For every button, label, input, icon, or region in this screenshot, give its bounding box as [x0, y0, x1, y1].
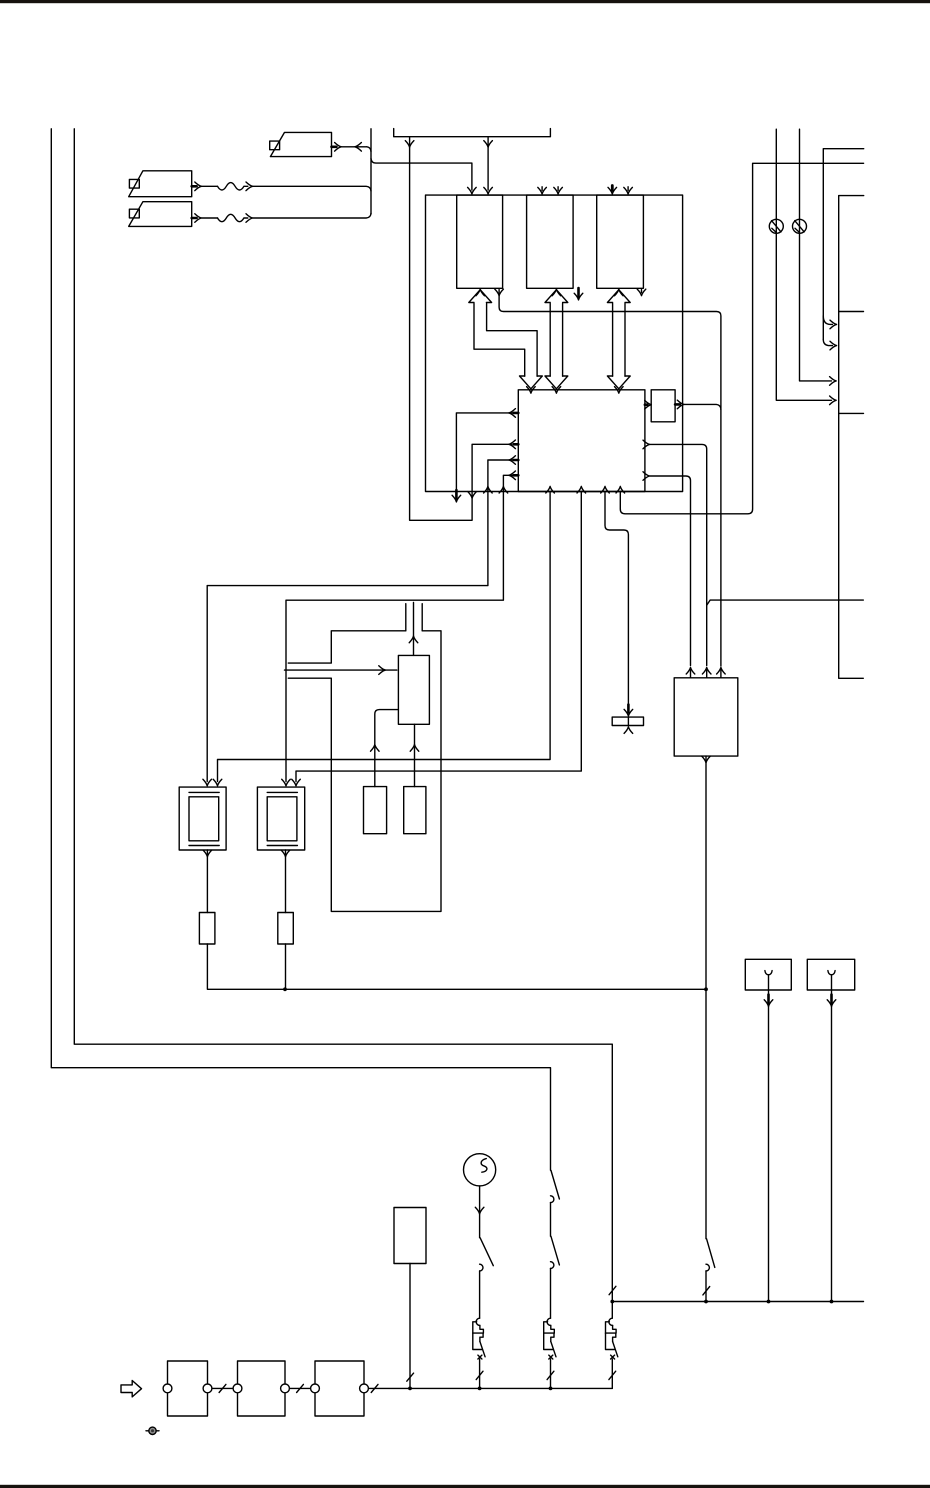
wire [244, 185, 248, 187]
wire: bracket to relay 1 pin 2 [487, 138, 489, 191]
ground bolt [149, 1427, 156, 1434]
arrow right [195, 214, 202, 223]
solenoid S1 [364, 787, 387, 834]
ECU right pin to sub box [645, 403, 648, 406]
lamp L2 [793, 219, 807, 233]
bold arrow end [452, 490, 461, 502]
relay block outer box [426, 195, 683, 491]
rail B stub 1 [839, 311, 864, 313]
switch SW1 contact [480, 1264, 483, 1271]
wire: ECU pin1 down [456, 413, 518, 490]
lamp L1 [769, 219, 783, 233]
wire W3: ECU pin3 to relay A [207, 460, 518, 782]
relay U3 aux pin arrow [641, 290, 643, 293]
ECU bottom pin to fuse connector [601, 486, 610, 493]
wire: left frame feed line 1 to switch column 2 [51, 129, 550, 1171]
arrow down into relay 1 [468, 187, 477, 194]
circuit breaker CB2 [544, 1318, 556, 1388]
switch SW2b blade [551, 1236, 559, 1265]
ECU left pin 2 [514, 443, 519, 446]
sensor box [394, 1208, 426, 1264]
connector CN1 [745, 959, 791, 990]
control unit box with notch [288, 631, 441, 912]
ECU left pin 1 [514, 412, 519, 415]
wire [244, 217, 248, 219]
horn H2 tab [129, 179, 139, 188]
sensor wire [409, 1264, 411, 1389]
rail A branch hook 1 [823, 316, 832, 324]
slash mark [371, 1384, 378, 1392]
lamp line 1 [776, 129, 831, 400]
arrow down from bracket [405, 141, 414, 148]
servo box [398, 655, 429, 724]
circuit breaker CB3 [606, 1318, 618, 1388]
solenoid S2 [404, 787, 426, 834]
wire to page edge at 600 [707, 600, 864, 605]
horn bus vertical wire [370, 129, 372, 214]
relay K3 [315, 1361, 364, 1416]
horn symbol H3 [129, 202, 192, 227]
ECU bottom pin to page edge [616, 486, 625, 493]
wire to merge [253, 186, 371, 191]
control unit chimney [405, 604, 407, 631]
wire to merge [253, 213, 371, 218]
wire K1-K2 [212, 1387, 233, 1389]
ECU right pin 2 [643, 440, 650, 449]
terminal circles [163, 1384, 172, 1393]
page header bar [0, 0, 930, 3]
right rail B [839, 196, 864, 679]
relay U3 pin stub 1 (bold) [611, 186, 614, 191]
sub box output [675, 403, 680, 406]
relay B inner core [267, 797, 297, 841]
slash mark [609, 1286, 616, 1294]
harness bus arrow U1 to ECU [469, 290, 492, 303]
relay K1 [168, 1361, 208, 1416]
slash mark [703, 1287, 710, 1295]
bus wire into servo [285, 669, 397, 671]
relay K2 [238, 1361, 286, 1416]
collector wire [612, 1301, 863, 1303]
ECU main box [518, 390, 645, 492]
arrow right [195, 182, 202, 191]
relay B inner bottom line [267, 845, 297, 847]
relay B outer [257, 787, 304, 850]
slash mark [219, 1384, 226, 1392]
ground bus wire [285, 988, 706, 990]
horn H3 tab [129, 209, 139, 218]
connector CN2 [807, 959, 854, 990]
motor lead [479, 1186, 481, 1238]
arrow left (connector pair) [355, 143, 362, 152]
arrow up into actuator [717, 667, 726, 674]
switch SW4 contact [706, 1264, 709, 1271]
flow block arrow [121, 1381, 142, 1397]
servo bottom pin [414, 724, 416, 786]
relay B inner top line [267, 791, 297, 793]
horn H1 tab [270, 141, 280, 150]
relay U2 [527, 195, 574, 288]
horn symbol H1 [270, 132, 331, 156]
resistor R2 [278, 913, 294, 945]
rail B stub 2 [839, 412, 864, 414]
actuator output wire [702, 756, 711, 763]
actuator box [674, 678, 738, 756]
horn H1 lead stub [332, 146, 337, 149]
arrow down from bracket [484, 141, 493, 148]
noise suppressor squiggle [218, 183, 244, 190]
relay A inner top line [189, 791, 219, 793]
slash mark [407, 1373, 414, 1381]
resistor R1 [199, 913, 215, 945]
relay A outer [179, 787, 226, 850]
harness bus arrow U2 to ECU [545, 290, 568, 303]
lamp line 2 [800, 129, 832, 381]
ECU left pin 3 [514, 459, 519, 462]
relay U2 pin stub 1 [541, 187, 543, 191]
ECU bottom pin to relay B coil [577, 486, 586, 493]
horn bus merge curve from H1 [367, 147, 371, 152]
switch SW1 blade [480, 1238, 493, 1266]
wire [202, 185, 218, 187]
wire: left frame feed line 2 to switch column 3 [74, 129, 612, 1318]
circuit breaker CB1 [473, 1318, 485, 1388]
horn H2 lead stub [192, 185, 197, 188]
arrow down at frame crossing [468, 492, 477, 499]
ECU right pin 3 [643, 472, 650, 481]
horn bus branch wire to relay block [371, 159, 472, 190]
relay U3 pin stub 2 [627, 187, 629, 191]
node [549, 1387, 553, 1391]
fuse connector F1 [624, 709, 633, 716]
slash mark [297, 1384, 304, 1392]
wire R2 to ground bus [285, 944, 287, 989]
ECU bottom pin to relay A coil [546, 486, 555, 493]
wire R1 to ground bus [207, 944, 284, 989]
relay U2 pin stub 2 [557, 187, 559, 191]
ECU left pin 4 [514, 474, 519, 477]
switch SW2a contact [551, 1196, 554, 1203]
switch SW2a blade [551, 1171, 559, 1200]
rail A branch hook 2 [823, 340, 832, 346]
switch SW2b contact [551, 1262, 554, 1269]
servo top pin [413, 603, 415, 656]
wire W2: bracket to ECU pin 2 [410, 138, 512, 521]
arrow down into relay 1 [484, 187, 493, 194]
servo left bottom pin [375, 710, 399, 787]
wire W4: ECU pin4 to relay B [286, 475, 518, 781]
harness bus arrow U3 to ECU [607, 290, 630, 303]
horn H3 lead stub [192, 217, 197, 220]
relay A inner bottom line [189, 845, 219, 847]
node: collector junction [610, 1300, 614, 1304]
wire [550, 1269, 552, 1319]
relay A inner core [189, 797, 219, 841]
relay U2 aux pin arrow (bold) [574, 288, 583, 300]
supply bracket [394, 129, 551, 137]
node [830, 1300, 834, 1304]
relay B output [281, 850, 290, 857]
node [478, 1387, 482, 1391]
horn symbol H2 [129, 171, 192, 197]
node [408, 1387, 412, 1391]
wire [202, 217, 218, 219]
relay U3 [597, 195, 644, 288]
page footer bar [0, 1485, 930, 1488]
wire [342, 146, 367, 148]
ground bus bar [368, 1387, 612, 1389]
arrow right [246, 214, 253, 223]
switch SW4 blade [707, 1239, 715, 1268]
relay U1 aux pin arrow [495, 289, 504, 296]
wire W10: relay U1 to actuator feed [499, 290, 721, 667]
node [704, 987, 708, 991]
noise suppressor squiggle [218, 214, 244, 221]
right rail A [823, 149, 863, 340]
relay A output [203, 850, 212, 857]
wire [550, 1203, 552, 1237]
wire K2-K3 [289, 1387, 310, 1389]
arrow right [335, 143, 342, 152]
node [704, 1300, 708, 1304]
motor M [464, 1154, 496, 1186]
relay U1 [457, 195, 503, 288]
node [283, 987, 287, 991]
node [767, 1300, 771, 1304]
sub box [651, 390, 675, 422]
arrow right [246, 182, 253, 191]
